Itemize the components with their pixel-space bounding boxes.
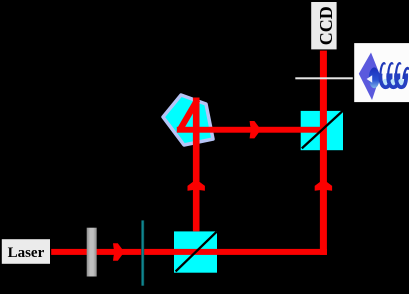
vortex inset: helix tail horn: [403, 68, 408, 79]
beamsplitter BS1 cube (bottom): [174, 231, 217, 272]
BS2 diagonal: [302, 111, 343, 149]
arrow on top beam: [250, 121, 261, 138]
vortex inset: helix cup 1: [380, 74, 390, 88]
vortex inset: helix cup glare 2: [390, 79, 396, 86]
wire: right vertical beam (corner up to CCD): [320, 50, 327, 255]
arrow on right vertical beam: [315, 179, 332, 190]
tilted phase plate (SLM): [163, 95, 213, 145]
vortex inset: helix cup 2: [388, 74, 398, 88]
BS1 diagonal: [176, 232, 217, 272]
CCD box: [311, 1, 338, 50]
neutral density filter: [87, 228, 97, 277]
vortex inset: dark helix start disc: [369, 67, 380, 88]
svg-text:Laser: Laser: [8, 245, 45, 261]
vortex inset: blue diamond: [359, 53, 380, 101]
vortex inset: helix cup glare 1: [382, 79, 388, 86]
wire: top horizontal beam (plate to BS2, bar of 4): [177, 127, 324, 133]
vortex inset: helix spike 1: [380, 63, 385, 77]
svg-text:CCD: CCD: [316, 6, 336, 45]
beamsplitter BS2 cube (top right): [301, 111, 343, 150]
vortex inset: helix spike 2: [388, 63, 393, 77]
vortex inset: helix spike 3: [396, 63, 401, 77]
wire: middle vertical beam (BS1 up to plate, stem of 4): [193, 98, 200, 232]
white reference line before CCD: [295, 77, 353, 79]
lens (teal line): [141, 220, 144, 285]
vortex inset: helix cup 3: [396, 74, 406, 88]
diagonal stroke of red 4 on plate: [180, 100, 198, 131]
arrow on middle vertical beam: [188, 179, 205, 190]
arrow on bottom beam: [113, 243, 124, 260]
vortex inset: white arrow notch: [367, 75, 373, 83]
wire: bottom horizontal beam (laser to corner): [51, 249, 327, 255]
laser box: [1, 239, 50, 265]
vortex inset image background: [354, 43, 409, 102]
vortex inset: helix cup glare 3: [398, 79, 404, 86]
